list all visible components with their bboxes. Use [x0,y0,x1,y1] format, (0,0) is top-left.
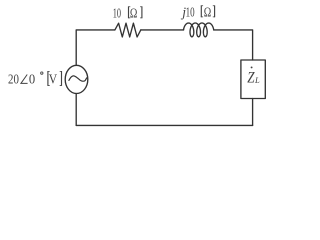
svg-text:20: 20 [8,72,19,87]
wire: resistor to inductor [141,29,184,31]
AC voltage source V1 ellipse [65,65,88,93]
load impedance box ZL [241,60,265,99]
resistor R1 (10 ohm) zigzag [115,23,141,37]
svg-text:Ω: Ω [130,5,138,20]
inductor L1 (j10 ohm) coil [183,23,213,37]
svg-text:V: V [49,72,57,87]
svg-text:10: 10 [113,6,121,21]
svg-text:0: 0 [29,72,35,87]
source label: angle symbol [21,75,28,84]
svg-text:Ω: Ω [204,5,212,20]
svg-text:L: L [254,75,260,85]
wire: bottom-left corner up to source bottom [75,94,77,126]
inductor label right bracket [214,5,216,17]
resistor label right bracket [141,6,143,18]
wire: source top to top-left corner to resistor [76,30,115,66]
inductor label left bracket [200,5,202,17]
source label left bracket [47,71,49,86]
svg-text:10: 10 [186,5,195,20]
source label right bracket [61,71,63,86]
dot over Z [251,66,253,68]
wire: inductor to top-right corner down to load box [214,30,253,60]
bottom wire rail [76,124,252,126]
AC source sine wave symbol [69,76,87,81]
source label: degree symbol [41,72,43,74]
resistor label left bracket [128,6,130,18]
wire: load box bottom to bottom rail [252,99,254,126]
